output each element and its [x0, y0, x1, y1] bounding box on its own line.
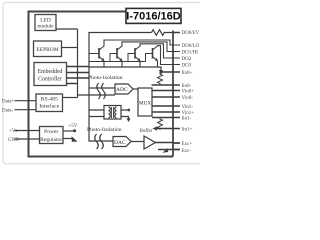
transformer T1 DC/DC	[104, 106, 121, 120]
wire LED bus	[56, 29, 115, 98]
svg-text:Vin0+: Vin0+	[182, 89, 195, 94]
Power Regulator U7	[40, 127, 64, 144]
svg-text:EEPROM: EEPROM	[36, 47, 58, 53]
wire power out arrow	[63, 138, 73, 140]
EEPROM U4	[34, 41, 62, 57]
svg-text:DO3: DO3	[182, 63, 192, 68]
wire Iin1- with shunt resistor R2	[152, 117, 180, 119]
svg-text:Iin1+: Iin1+	[182, 127, 193, 132]
wire GND	[15, 138, 40, 140]
transistor Q4	[153, 46, 181, 67]
wire Iin0-	[152, 84, 181, 86]
svg-text:Photo-Isolation: Photo-Isolation	[88, 75, 123, 81]
resistor R2	[158, 118, 163, 130]
resistor Rp	[152, 30, 174, 36]
isolation squiggles upper	[97, 83, 106, 99]
wire Vin0-	[152, 96, 180, 98]
DAC converter	[113, 137, 131, 147]
svg-text:+Vs: +Vs	[9, 129, 17, 134]
svg-text:Buffer: Buffer	[140, 129, 153, 134]
svg-text:Vin1-: Vin1-	[182, 105, 194, 110]
wire +5V out	[63, 130, 74, 132]
LED module	[35, 15, 56, 31]
wire DAC to buffer	[131, 141, 144, 143]
MUX U2	[138, 88, 152, 116]
wire Data-	[15, 109, 37, 111]
svg-text:Vin0-: Vin0-	[182, 96, 194, 101]
resistor R1	[158, 72, 163, 85]
Embedded Controller U5	[34, 63, 67, 86]
svg-text:Interface: Interface	[39, 102, 59, 109]
svg-text:Exc-: Exc-	[182, 149, 192, 154]
picture border	[3, 3, 200, 164]
svg-text:I-7016/16D: I-7016/16D	[126, 11, 180, 23]
svg-text:Iin1-: Iin1-	[182, 116, 192, 121]
emitter rail	[89, 67, 161, 71]
wire Exc+	[156, 142, 181, 145]
transistor Q3	[135, 44, 180, 67]
wire ADC to MUX	[133, 88, 138, 90]
wire Data+	[15, 100, 37, 102]
wire Vin1+	[152, 111, 180, 113]
svg-text:ADC: ADC	[116, 87, 128, 93]
svg-text:Power: Power	[44, 129, 58, 135]
svg-text:Photo-Isolation: Photo-Isolation	[87, 127, 122, 133]
svg-text:Data-: Data-	[2, 109, 13, 114]
svg-text:Iin0-: Iin0-	[182, 84, 192, 89]
wire transformer left taps	[89, 110, 104, 117]
title box I-7016/16D	[126, 8, 181, 23]
base tree	[89, 54, 153, 62]
svg-text:Iin0+: Iin0+	[182, 71, 193, 76]
svg-text:DO2: DO2	[182, 57, 192, 62]
svg-text:DAC: DAC	[114, 140, 126, 146]
svg-text:Exc+: Exc+	[182, 142, 193, 147]
svg-text:Controller: Controller	[38, 77, 62, 83]
transistor Q2	[117, 42, 180, 67]
svg-text:RS-485: RS-485	[41, 97, 58, 103]
wire main vertical bus	[89, 32, 113, 141]
svg-text:Data+: Data+	[2, 100, 14, 105]
wire EEPROM bus	[62, 47, 78, 49]
wire controller data bus	[67, 67, 90, 84]
svg-text:GND: GND	[8, 138, 19, 143]
wire Iin0+ with shunt resistor R1	[160, 71, 180, 73]
svg-text:Embedded: Embedded	[38, 69, 63, 75]
svg-text:DO0/LO: DO0/LO	[182, 44, 200, 49]
terminal stubs	[173, 33, 180, 150]
RS-485 Interface U6	[36, 94, 63, 112]
isolation squiggles lower	[95, 134, 104, 149]
wire RS-485 link	[63, 97, 78, 99]
wire Exc- with ground arrow	[158, 149, 180, 151]
svg-text:DO0/EV: DO0/EV	[182, 31, 200, 36]
svg-text:Regulator: Regulator	[40, 137, 62, 143]
svg-text:LED: LED	[40, 17, 51, 23]
top collector feed wire with resistor R-pullup	[89, 32, 152, 34]
op-amp buffer U3	[144, 136, 156, 149]
svg-text:module: module	[37, 24, 54, 30]
wire isolation input	[89, 87, 115, 89]
svg-text:Vin1+: Vin1+	[182, 111, 195, 116]
svg-text:DO1/HI: DO1/HI	[182, 50, 199, 55]
op-amp ADC converter	[115, 84, 133, 94]
wire +Vs	[15, 130, 40, 132]
wire transformer out B arrow	[121, 117, 129, 119]
svg-text:+5V: +5V	[69, 124, 78, 129]
transistor Q1	[99, 40, 180, 67]
wire Iin1+	[155, 128, 180, 130]
wire Vin0+	[152, 90, 180, 92]
wire Vin1-	[152, 105, 180, 107]
wire transformer out A	[121, 109, 128, 111]
terminal bus	[172, 31, 174, 157]
svg-text:MUX: MUX	[139, 101, 151, 107]
